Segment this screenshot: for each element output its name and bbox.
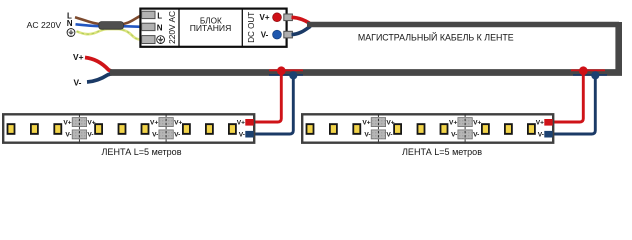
strip2 LED D8 <box>504 123 513 135</box>
wire V- feed (blue) <box>87 74 112 83</box>
strip2 LED D6 <box>440 123 449 135</box>
strip2 LED D4 <box>393 123 402 135</box>
svg-text:V+: V+ <box>362 119 370 126</box>
svg-text:V-: V- <box>152 131 158 138</box>
junction J1 V- pass-through mark (blue) <box>269 74 303 76</box>
svg-text:L: L <box>157 11 162 20</box>
svg-text:V+: V+ <box>63 119 71 126</box>
junction J2 V+ pass-through mark (red) <box>571 69 605 71</box>
junction J2 V+ node (red dot) <box>579 66 588 75</box>
wire J1 V+ drop to strip 1 (red) <box>255 71 282 122</box>
svg-text:V-: V- <box>473 131 479 138</box>
svg-text:ПИТАНИЯ: ПИТАНИЯ <box>190 24 232 33</box>
svg-text:V-: V- <box>174 131 180 138</box>
strip1 LED D6 <box>141 123 150 135</box>
svg-text:V-: V- <box>87 131 93 138</box>
strip1 connector CN2 <box>150 115 182 144</box>
pin label earth symbol <box>157 36 165 44</box>
strip1 LED D9 <box>228 123 237 135</box>
strip1 terminal V- <box>239 131 254 139</box>
LED strip 2 body <box>302 114 553 142</box>
svg-text:V+: V+ <box>449 119 457 126</box>
svg-text:V+: V+ <box>73 52 84 62</box>
strip2 LED D7 <box>481 123 490 135</box>
strip2 terminal V- <box>538 131 553 139</box>
trunk cable (horizontal run + right drop) <box>307 22 619 73</box>
svg-text:V-: V- <box>538 131 544 138</box>
strip1 LED D5 <box>118 123 127 135</box>
strip1 LED D4 <box>94 123 103 135</box>
svg-text:N: N <box>157 23 163 32</box>
strip1 LED D1 <box>7 123 16 135</box>
junction J1 V+ pass-through mark (red) <box>269 69 303 71</box>
strip2 LED D3 <box>352 123 361 135</box>
svg-text:V-: V- <box>364 131 370 138</box>
svg-text:V+: V+ <box>174 119 182 126</box>
svg-text:AC 220V: AC 220V <box>27 20 62 30</box>
wire J2 V- drop to strip 2 (blue) <box>554 75 596 134</box>
junction J1 V+ node (red dot) <box>277 66 286 75</box>
wire J2 V+ drop to strip 2 (red) <box>554 71 584 122</box>
strip1 LED D2 <box>30 123 39 135</box>
terminal L (PSU input) <box>142 11 155 18</box>
wire V+ (red) PSU to trunk cable <box>292 17 310 23</box>
svg-text:V-: V- <box>261 31 269 40</box>
svg-text:DC OUT: DC OUT <box>246 12 256 43</box>
svg-text:V-: V- <box>451 131 457 138</box>
junction J2 V- pass-through mark (blue) <box>573 74 607 76</box>
terminal N (PSU input) <box>142 23 155 30</box>
svg-text:220V AC: 220V AC <box>167 11 177 44</box>
junction J1 V- node (blue dot) <box>289 71 297 79</box>
svg-text:V+: V+ <box>237 119 245 126</box>
svg-text:V-: V- <box>74 77 82 87</box>
strip1 LED D7 <box>182 123 191 135</box>
terminal V+ (PSU output) <box>259 13 292 22</box>
svg-text:V+: V+ <box>536 119 544 126</box>
wire J1 V- drop to strip 1 (blue) <box>255 75 294 134</box>
label БЛОК ПИТАНИЯ <box>190 17 232 33</box>
wire V+ feed (red) <box>85 58 112 72</box>
distribution cable (lower run) <box>110 69 622 76</box>
strip1 connector CN1 <box>63 115 95 144</box>
strip2 connector CN1 <box>362 115 394 144</box>
terminal V- (PSU output) <box>261 30 293 39</box>
strip2 LED D5 <box>417 123 426 135</box>
junction J2 V- node (blue dot) <box>591 71 599 79</box>
svg-text:V+: V+ <box>259 13 269 22</box>
strip2 LED D2 <box>329 123 338 135</box>
svg-text:V-: V- <box>239 131 245 138</box>
wire V- (blue) PSU to trunk cable <box>292 26 311 34</box>
wire N (blue) <box>76 24 143 27</box>
terminal PE (PSU input) <box>142 36 155 44</box>
strip2 connector CN2 <box>449 115 481 144</box>
svg-text:V-: V- <box>386 131 392 138</box>
svg-text:N: N <box>67 19 73 28</box>
strip2 LED D1 <box>306 123 315 135</box>
svg-text:V+: V+ <box>150 119 158 126</box>
wire L (brown) <box>75 15 143 24</box>
LED strip 1 body <box>3 114 254 142</box>
wire PE (yellow-green) <box>77 29 143 39</box>
strip1 LED D3 <box>53 123 62 135</box>
strip1 terminal V+ <box>237 119 254 126</box>
svg-text:МАГИСТРАЛЬНЫЙ КАБЕЛЬ К ЛЕНТЕ: МАГИСТРАЛЬНЫЙ КАБЕЛЬ К ЛЕНТЕ <box>358 31 514 42</box>
svg-text:ЛЕНТА L=5 метров: ЛЕНТА L=5 метров <box>402 146 482 157</box>
strip2 terminal V+ <box>536 119 553 126</box>
strip2 LED D9 <box>527 123 536 135</box>
cable sheath <box>99 22 124 30</box>
svg-text:V+: V+ <box>473 119 481 126</box>
svg-text:ЛЕНТА L=5 метров: ЛЕНТА L=5 метров <box>102 146 182 157</box>
svg-text:V-: V- <box>65 131 71 138</box>
earth symbol (mains) <box>67 29 75 37</box>
power supply U1 (БЛОК ПИТАНИЯ) box <box>140 8 286 47</box>
strip1 LED D8 <box>205 123 214 135</box>
